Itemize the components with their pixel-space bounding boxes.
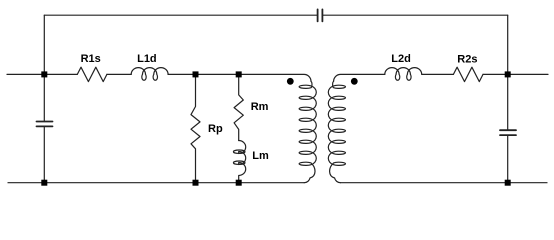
- transformer primary dot: [287, 78, 294, 85]
- svg-text:L2d: L2d: [391, 53, 411, 65]
- wire left vertical lower: [43, 127, 45, 183]
- transformer primary winding T1: [239, 74, 317, 182]
- resistor Rp: [191, 74, 200, 182]
- node junction Lm bottom: [236, 180, 242, 186]
- wire R2s to node D: [483, 73, 508, 75]
- svg-text:L1d: L1d: [137, 53, 157, 65]
- resistor R1s: [77, 67, 107, 81]
- wire L2d to R2s: [422, 73, 454, 75]
- node junction Rp top: [193, 71, 199, 77]
- svg-text:Lm: Lm: [252, 150, 269, 162]
- node junction bottom-left: [41, 180, 47, 186]
- wire right vertical lower: [507, 136, 509, 183]
- wire bottom right segment: [340, 182, 547, 184]
- svg-text:R2s: R2s: [457, 53, 477, 65]
- wire main y74 R1s to L1d: [107, 73, 131, 75]
- capacitor C2 right plates: [500, 129, 516, 131]
- inductor L2d: [385, 68, 422, 81]
- svg-text:Rm: Rm: [251, 101, 269, 113]
- transformer secondary dot: [351, 78, 358, 85]
- wire input stub left: [7, 73, 44, 75]
- wire left vertical upper: [43, 15, 45, 121]
- node junction bottom-right: [505, 180, 511, 186]
- resistor R2s: [453, 67, 483, 81]
- inductor Lm: [239, 141, 246, 183]
- node junction Rm top: [236, 71, 242, 77]
- wire main y74 node B to node C: [196, 73, 239, 75]
- wire right vertical upper: [507, 15, 509, 130]
- capacitor Cps top plates: [317, 9, 319, 21]
- transformer secondary winding T1: [328, 74, 384, 182]
- node junction output-right: [505, 71, 511, 77]
- wire output stub right: [508, 73, 548, 75]
- wire main y74 node A to R1s: [44, 73, 77, 75]
- node junction input-left: [41, 71, 47, 77]
- inductor L1d: [131, 68, 168, 81]
- wire main y74 L1d to primary top: [168, 73, 196, 75]
- wire top horizontal left of Cps: [44, 14, 317, 16]
- wire bottom left segment: [8, 182, 304, 184]
- wire top horizontal right of Cps: [322, 14, 507, 16]
- svg-text:R1s: R1s: [81, 53, 101, 65]
- node junction Rp bottom: [193, 180, 199, 186]
- capacitor C1 left plates: [37, 121, 53, 123]
- resistor Rm: [234, 74, 243, 140]
- svg-text:Rp: Rp: [208, 123, 223, 135]
